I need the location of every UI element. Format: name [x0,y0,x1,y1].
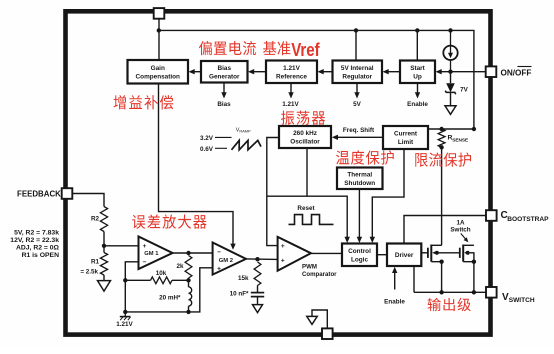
resistor R2 [100,207,107,232]
wire 3.2V level [215,136,232,138]
ground (GND pin) [307,316,317,324]
node GM1 output [186,251,190,255]
wire thermal shutdown to control logic [358,189,360,239]
svg-text:Vref: Vref [291,40,320,60]
red label 温度保护 [336,150,394,164]
op-amp GM1 [139,237,173,270]
svg-text:BOOTSTRAP: BOOTSTRAP [507,216,549,223]
block Gain Compensation [128,60,189,84]
svg-text:Comparator: Comparator [302,271,337,278]
svg-text:−: − [217,249,221,256]
resistor R1 [100,253,107,276]
wire Q1 source [431,262,441,293]
svg-text:SWITCH: SWITCH [509,297,535,304]
resistor 15k [254,262,261,286]
wire [103,232,105,253]
svg-text:Reference: Reference [276,73,307,80]
node comp [186,278,190,282]
red label 振荡器 [281,111,325,125]
svg-text:Reset: Reset [297,205,315,212]
svg-text:R1: R1 [91,259,100,266]
node VIN-rail junction [157,28,161,32]
wire [188,278,190,287]
wire oscillator ramp output [267,138,279,246]
wire [172,279,189,281]
wire Bias Generator to Gain Compensation [193,71,201,73]
wire Q2 drain [463,244,474,246]
svg-text:Switch: Switch [450,227,470,234]
red label 增益补偿 [114,95,174,109]
svg-text:5V Internal: 5V Internal [341,65,374,72]
svg-text:Oscillator: Oscillator [290,139,320,146]
svg-text:Bias: Bias [217,101,231,108]
wire rail to 5V Internal Regulator [355,30,357,60]
node 10k left [123,278,127,282]
svg-text:+: + [281,243,285,250]
wire Q2 source [463,262,474,293]
op-amp GM2 [213,243,246,275]
wire RSENSE to switch drain [441,147,443,245]
svg-text:Generator: Generator [209,73,240,80]
svg-text:20 mH*: 20 mH* [159,294,181,301]
svg-text:SENSE: SENSE [452,137,468,142]
wire Q1 drain [431,244,441,246]
svg-text:+: + [281,257,285,264]
wire Current Limit to RSENSE rail [428,128,474,130]
svg-text:Gain: Gain [151,65,165,72]
pointer to switch [461,234,466,240]
wire Control Logic to Driver [377,254,387,256]
node feedback divider [102,244,106,248]
block Current Limit [383,126,428,149]
wire Enable output arrow [417,83,419,94]
ground (zener) [445,106,456,115]
ground (R1) [98,281,111,292]
block Bias Generator [201,61,248,83]
block 1.21V Reference [266,61,317,84]
svg-text:ON/OFF: ON/OFF [501,68,532,77]
wire [450,92,452,105]
node VIN rail corner [472,127,476,131]
svg-text:Freq. Shift: Freq. Shift [343,127,375,134]
wire [103,275,105,281]
svg-text:−: − [143,259,147,266]
transistor Q1 [428,245,439,262]
pin VIN (top, unlabeled) [154,8,165,19]
pin ON/OFF [486,66,497,77]
svg-text:3.2V: 3.2V [200,135,214,142]
svg-text:1.21V: 1.21V [283,65,300,72]
node RSENSE bottom [439,145,443,149]
block Start Up [400,61,435,84]
wire Start Up to Regulator [387,71,400,73]
wire Q2 body jog [468,253,474,262]
wire Freq. Shift (Current Limit to Oscillator) [336,136,383,138]
node Start Up supply tap [415,28,419,32]
pin CBOOTSTRAP [486,210,497,221]
svg-text:PWM: PWM [302,264,317,271]
wire FEEDBACK to divider [73,194,105,207]
svg-text:Up: Up [413,73,422,80]
wire Enable into Driver [394,271,396,290]
wire [188,306,190,312]
wire Bias output arrow [223,83,225,94]
IC package boundary [66,11,491,334]
svg-text:1.21V: 1.21V [282,101,299,108]
node VIN rail to current source [448,28,452,32]
wire VSWITCH rail [414,291,486,293]
svg-text:GM 1: GM 1 [144,251,159,257]
svg-text:= 2.5k: = 2.5k [80,269,98,276]
wire GM1 output [173,252,213,254]
wire Driver to VSWITCH rail [413,266,415,292]
svg-text:10 nF*: 10 nF* [230,290,249,297]
svg-text:R2: R2 [91,216,100,223]
svg-text:1A: 1A [456,219,465,226]
transistor Q1 gate wire [421,252,428,254]
wire divider to GM1 [104,245,139,247]
wire compensation bottom rail [125,268,212,312]
svg-text:7V: 7V [460,87,469,94]
svg-text:Thermal: Thermal [347,171,372,178]
svg-text:Current: Current [394,131,418,138]
wire VIN rail [159,30,474,129]
ground (10nF) [253,305,263,313]
node [439,290,443,294]
svg-text:260 kHz: 260 kHz [293,130,317,137]
wire GM2 output [246,258,278,261]
red label 基准 [263,41,290,55]
svg-text:Enable: Enable [384,298,405,305]
transistor Q2 [460,245,470,262]
svg-text:Driver: Driver [395,252,414,259]
svg-text:Regulator: Regulator [342,73,372,80]
pin VSWITCH [486,287,497,298]
block Driver [387,244,421,267]
wire GND pin to signal ground [312,310,327,329]
block 5V Internal Regulator [333,61,383,84]
node RSENSE top [439,127,443,131]
svg-text:+: + [217,266,221,273]
svg-text:0.6V: 0.6V [200,146,214,153]
svg-text:5V: 5V [353,101,362,108]
wire 5V output arrow [356,83,358,94]
resistor 2k [185,256,192,279]
node Q2 source [472,260,476,264]
node [186,310,190,314]
resistor RSENSE [438,129,445,147]
wire oscillator to control logic [267,196,347,238]
wire PWM output to Control Logic [311,252,342,254]
waveform reset pulses [289,215,334,225]
reference rail 1.21V [120,312,131,320]
wire oscillator bottom output [306,148,308,196]
svg-text:Logic: Logic [351,256,368,263]
wire GM1 inverting input [125,262,138,281]
block Thermal Shutdown [337,168,383,190]
wire gain compensation to GM2 [159,84,234,245]
wire Driver to CBOOTSTRAP [404,216,486,244]
node current source tap [448,70,452,74]
wire Q1 body to Q2 gate [437,252,460,254]
pin GND [322,328,333,339]
wire [158,19,160,60]
svg-text:GM 2: GM 2 [219,258,233,264]
wire 1.21V output arrow [290,83,292,94]
waveform sawtooth ramp [232,140,262,149]
wire [125,279,150,281]
resistor 10k [151,277,173,284]
svg-text:R1 is OPEN: R1 is OPEN [22,252,59,259]
svg-text:FEEDBACK: FEEDBACK [17,190,61,199]
wire current limit to control logic [372,149,404,239]
svg-text:Control: Control [348,248,371,255]
node [472,290,476,294]
wire ON/OFF to Start Up [440,71,486,73]
node [123,310,127,314]
svg-text:Limit: Limit [398,139,414,146]
svg-text:2k: 2k [176,263,184,270]
svg-text:Enable: Enable [407,101,428,108]
svg-text:12V, R2 = 22.3k: 12V, R2 = 22.3k [10,237,59,244]
block 260 kHz Oscillator [279,126,331,148]
wire Reference to Bias Generator [253,71,267,73]
capacitor 10nF [251,293,264,297]
wire [257,297,259,305]
svg-text:1.21V: 1.21V [116,321,133,328]
node GM2 output [255,257,259,261]
svg-text:+: + [143,243,147,250]
svg-text:15k: 15k [238,275,249,282]
zener diode D1 7V [445,83,456,94]
current source I1 [443,30,457,71]
pin FEEDBACK [62,188,73,199]
svg-text:5V, R2 = 7.83k: 5V, R2 = 7.83k [14,230,59,237]
inductor 20mH [189,287,192,306]
wire rail to Start Up [416,30,418,60]
wire 0.6V level [215,147,227,149]
red label 限流保护 [415,152,471,166]
red label 误差放大器 [132,214,206,228]
red label 输出级 [428,298,471,311]
red label 偏置电流 [199,41,256,55]
comparator PWM [278,237,311,271]
svg-text:Bias: Bias [218,65,232,72]
svg-text:ADJ, R2 = 0Ω: ADJ, R2 = 0Ω [16,245,60,252]
svg-text:Compensation: Compensation [136,73,180,80]
block Control Logic [342,244,377,267]
wire [450,72,452,84]
svg-text:Shutdown: Shutdown [344,180,375,187]
wire Regulator to Reference [322,71,333,73]
node Q1 source [439,260,443,264]
node 5V regulator supply tap [354,28,358,32]
svg-text:Start: Start [410,65,425,72]
svg-text:RAMP: RAMP [239,129,251,134]
wire [257,286,259,293]
svg-text:10k: 10k [156,270,167,277]
